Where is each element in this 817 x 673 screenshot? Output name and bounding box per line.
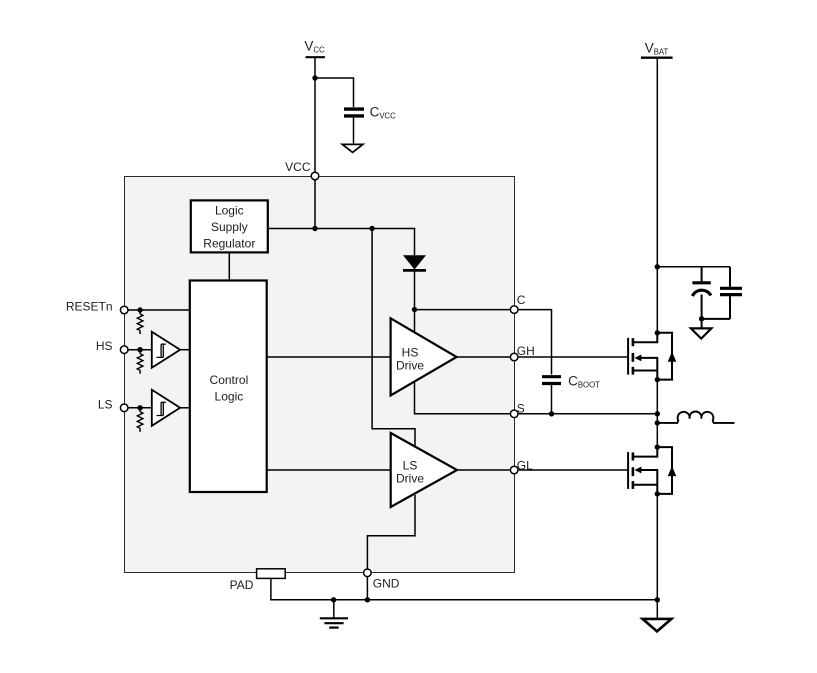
node: S wire junction: [655, 411, 660, 416]
resistor (LS pulldown): [137, 408, 143, 432]
wire GND pin to ground bus: [366, 577, 368, 600]
capacitor (bypass): [702, 267, 742, 319]
wire LS pin to buffer: [128, 407, 152, 409]
pin PAD (thermal pad): [230, 569, 286, 592]
pin VCC: [285, 160, 319, 180]
node: earth stub junction: [331, 597, 336, 602]
capacitor CBOOT: [542, 373, 600, 389]
svg-text:Control: Control: [210, 373, 249, 387]
wire control logic to LS drive: [267, 469, 391, 471]
wire C_VCC to ground: [353, 118, 355, 145]
wire Q2 source to ground: [656, 494, 658, 619]
svg-text:HS: HS: [96, 339, 113, 353]
node: junction internal rail: [369, 226, 374, 231]
pin GND: [364, 569, 400, 591]
pin GH: [510, 344, 534, 361]
pin GL: [510, 458, 533, 474]
wire diode to C node: [414, 270, 416, 309]
node: inductor junction: [655, 420, 660, 425]
node: VCC branch junction: [312, 75, 317, 80]
inductor L1: [657, 412, 734, 423]
svg-text:GND: GND: [373, 577, 400, 591]
diode (bootstrap): [403, 255, 426, 270]
buffer LS Drive: [391, 433, 457, 507]
buffer HS Drive: [391, 318, 457, 395]
svg-text:Drive: Drive: [396, 471, 424, 485]
svg-text:C: C: [517, 293, 526, 307]
node: C junction: [412, 307, 417, 312]
svg-text:Regulator: Regulator: [203, 237, 255, 251]
wire to input capacitors: [657, 266, 730, 268]
pin LS: [98, 397, 128, 411]
wire LSR to control logic: [228, 252, 230, 280]
IC boundary box (gate driver): [125, 177, 515, 573]
capacitor CVCC: [344, 105, 396, 121]
svg-text:Logic: Logic: [215, 204, 244, 218]
schmitt buffer (LS input): [152, 390, 180, 426]
wire LSR output rail: [268, 228, 415, 230]
node: HS junction: [137, 347, 142, 352]
wire HS buffer to control logic: [179, 349, 189, 351]
resistor (RESETn pulldown): [137, 310, 143, 334]
capacitor (bulk, polarized): [692, 267, 710, 319]
svg-text:LS: LS: [98, 397, 113, 411]
node: RESETn junction: [137, 307, 142, 312]
svg-text:VCC: VCC: [285, 160, 311, 174]
wire RESETn to control logic: [128, 309, 190, 311]
node: ground bus junction: [655, 597, 660, 602]
wire LS drive to pin GL: [457, 469, 514, 471]
node: LS junction: [137, 405, 142, 410]
supply rail V_CC: [304, 39, 325, 58]
wire to C_VCC: [315, 78, 354, 107]
schmitt buffer (HS input): [152, 332, 180, 368]
wire LS drive return to GND pin: [367, 495, 415, 569]
node: GND junction: [365, 597, 370, 602]
wire switch node: [656, 380, 658, 448]
resistor (HS pulldown): [137, 350, 143, 374]
node: cap ground junction: [699, 316, 704, 321]
block U1 Logic Supply Regulator: [191, 200, 268, 252]
wire pin C to C_BOOT: [518, 310, 552, 375]
node: input cap junction: [655, 264, 660, 269]
svg-text:RESETn: RESETn: [66, 300, 113, 314]
pin S: [510, 401, 524, 417]
svg-text:LS: LS: [403, 458, 418, 472]
svg-text:Drive: Drive: [396, 358, 424, 372]
pin HS: [96, 339, 128, 353]
wire V_CC bar to VCC pin: [314, 57, 316, 176]
transistor Q1 (high-side NFET with body diode): [628, 330, 676, 382]
wire internal rail to LS drive: [372, 229, 415, 448]
supply rail V_BAT: [641, 41, 673, 58]
wire VCC pin to internal rail: [314, 180, 316, 229]
svg-text:PAD: PAD: [230, 578, 254, 592]
wire pin GH to Q1 gate: [518, 356, 628, 358]
node: C_BOOT/S junction: [549, 411, 554, 416]
block Control Logic: [190, 281, 267, 493]
wire cap junction to ground: [701, 319, 703, 329]
node: junction VCC/LSR: [312, 226, 317, 231]
transistor Q2 (low-side NFET with body diode): [628, 444, 676, 496]
wire control logic to HS drive: [267, 356, 391, 358]
wire HS drive return to S: [415, 381, 515, 413]
wire pin GL to Q2 gate: [518, 469, 628, 471]
wire C node to pin C: [415, 309, 515, 311]
earth ground (PAD): [320, 600, 348, 628]
wire HS pin to buffer: [128, 349, 152, 351]
ground (power): [643, 619, 672, 632]
svg-text:Logic: Logic: [215, 390, 244, 404]
svg-text:HS: HS: [402, 345, 419, 359]
wire C node into HS drive: [414, 310, 416, 333]
svg-text:Supply: Supply: [211, 220, 248, 234]
wire C_BOOT to S: [551, 385, 553, 414]
wire PAD to ground bus: [271, 578, 657, 599]
pin RESETn: [66, 300, 128, 314]
pin C: [510, 293, 525, 314]
wire HS drive to pin GH: [457, 356, 515, 358]
ground (input caps): [691, 328, 712, 338]
wire pin S to switch node: [518, 413, 657, 415]
ground (under C_VCC): [342, 144, 362, 152]
wire rail to diode: [414, 228, 416, 256]
wire LS buffer to control logic: [179, 407, 189, 409]
wire V_BAT to Q1 drain: [656, 58, 658, 333]
svg-text:GH: GH: [517, 344, 535, 358]
